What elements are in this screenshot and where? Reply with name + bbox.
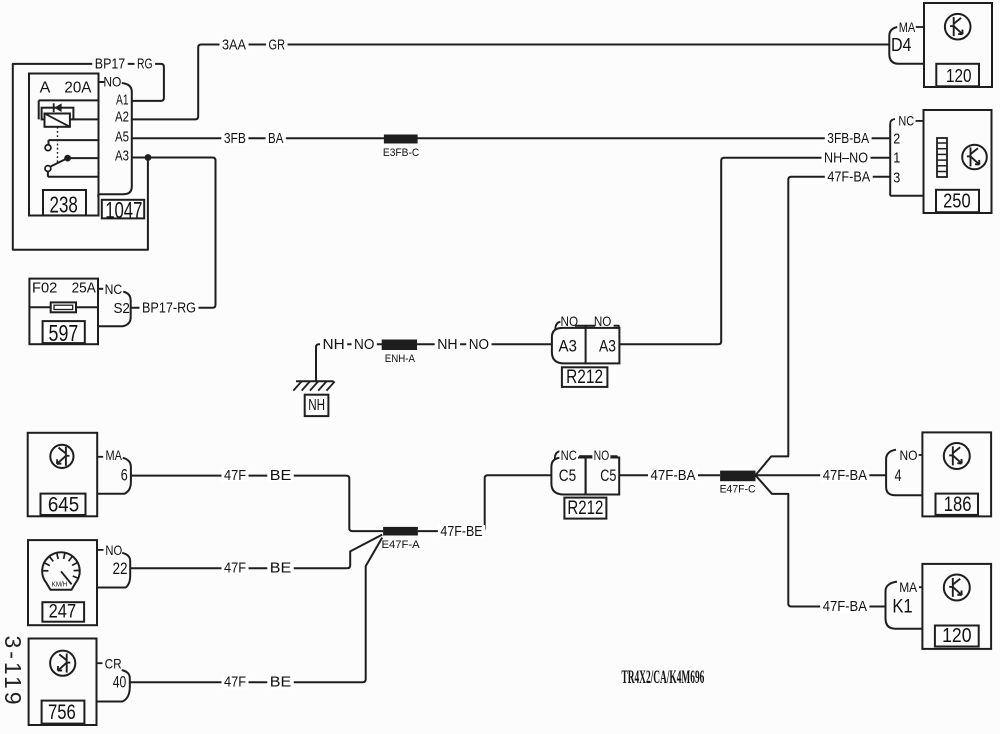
- svg-text:C5: C5: [559, 466, 576, 485]
- svg-text:E47F-C: E47F-C: [720, 484, 756, 496]
- svg-text:MA: MA: [899, 19, 916, 35]
- svg-text:RG: RG: [137, 55, 153, 72]
- svg-text:22: 22: [112, 559, 127, 578]
- svg-text:3-119: 3-119: [0, 635, 26, 707]
- svg-text:NC: NC: [561, 447, 577, 463]
- svg-text:A3: A3: [115, 148, 129, 165]
- svg-text:NO: NO: [594, 447, 610, 463]
- svg-text:BP17-RG: BP17-RG: [142, 299, 196, 316]
- svg-text:47F-BA: 47F-BA: [823, 467, 867, 484]
- svg-text:47F: 47F: [224, 467, 246, 484]
- svg-text:NH: NH: [323, 336, 345, 353]
- svg-text:A1: A1: [116, 92, 129, 109]
- svg-text:MA: MA: [106, 447, 123, 463]
- svg-text:47F-BA: 47F-BA: [823, 598, 867, 615]
- svg-text:K1: K1: [892, 597, 912, 618]
- svg-text:F02: F02: [32, 280, 57, 297]
- svg-text:S2: S2: [113, 300, 130, 317]
- svg-text:BE: BE: [270, 560, 292, 577]
- svg-text:120: 120: [942, 625, 971, 647]
- svg-text:NH: NH: [308, 397, 325, 414]
- svg-text:R212: R212: [566, 367, 603, 388]
- svg-text:47F: 47F: [224, 674, 246, 691]
- svg-text:1: 1: [893, 150, 900, 167]
- svg-text:250: 250: [943, 190, 971, 212]
- svg-text:GR: GR: [269, 37, 286, 54]
- svg-text:120: 120: [946, 66, 972, 86]
- svg-text:2: 2: [893, 131, 900, 148]
- svg-text:A5: A5: [115, 129, 129, 146]
- svg-text:25A: 25A: [72, 280, 96, 297]
- svg-text:3: 3: [893, 170, 900, 187]
- svg-text:TR4X2/CA/K4M696: TR4X2/CA/K4M696: [621, 667, 704, 688]
- svg-text:E3FB-C: E3FB-C: [383, 147, 419, 159]
- svg-text:C5: C5: [600, 466, 616, 485]
- svg-text:1047: 1047: [105, 197, 142, 223]
- svg-text:NO: NO: [469, 336, 489, 353]
- svg-text:BE: BE: [270, 467, 292, 484]
- svg-text:756: 756: [48, 701, 76, 724]
- svg-text:A3: A3: [558, 337, 577, 356]
- svg-text:3FB: 3FB: [224, 130, 246, 147]
- svg-text:6: 6: [121, 466, 128, 485]
- svg-text:NC: NC: [898, 113, 914, 129]
- svg-text:NO: NO: [354, 336, 374, 353]
- svg-text:4: 4: [895, 466, 902, 485]
- svg-text:NC: NC: [105, 281, 123, 297]
- svg-text:NO: NO: [103, 74, 121, 90]
- svg-text:KM/H: KM/H: [52, 579, 68, 588]
- svg-text:NH: NH: [437, 336, 457, 353]
- svg-text:NO: NO: [105, 542, 122, 558]
- svg-text:3AA: 3AA: [222, 37, 246, 54]
- svg-text:186: 186: [944, 493, 972, 516]
- svg-text:645: 645: [48, 493, 79, 516]
- svg-text:40: 40: [113, 673, 127, 692]
- svg-text:NO: NO: [900, 447, 918, 463]
- svg-text:MA: MA: [899, 579, 918, 595]
- svg-text:47F: 47F: [224, 560, 246, 577]
- svg-text:NH–NO: NH–NO: [824, 149, 868, 166]
- svg-text:A3: A3: [599, 337, 616, 356]
- svg-text:BE: BE: [270, 674, 292, 691]
- svg-text:D4: D4: [891, 35, 912, 55]
- svg-text:R212: R212: [567, 498, 603, 519]
- svg-text:NO: NO: [561, 313, 579, 329]
- svg-text:20A: 20A: [64, 79, 91, 96]
- svg-text:E47F-A: E47F-A: [382, 539, 421, 551]
- svg-text:597: 597: [49, 320, 79, 346]
- svg-text:47F-BE: 47F-BE: [440, 523, 482, 540]
- svg-text:47F-BA: 47F-BA: [827, 168, 870, 185]
- svg-text:47F-BA: 47F-BA: [651, 467, 696, 484]
- svg-text:3FB-BA: 3FB-BA: [827, 130, 869, 147]
- svg-text:A2: A2: [115, 109, 129, 126]
- svg-text:247: 247: [49, 602, 77, 623]
- svg-text:ENH-A: ENH-A: [385, 353, 416, 365]
- svg-text:BP17: BP17: [95, 55, 126, 72]
- svg-text:NO: NO: [594, 313, 612, 329]
- svg-text:238: 238: [50, 191, 78, 217]
- svg-text:BA: BA: [268, 130, 283, 147]
- svg-text:CR: CR: [105, 655, 122, 671]
- svg-text:A: A: [40, 79, 51, 96]
